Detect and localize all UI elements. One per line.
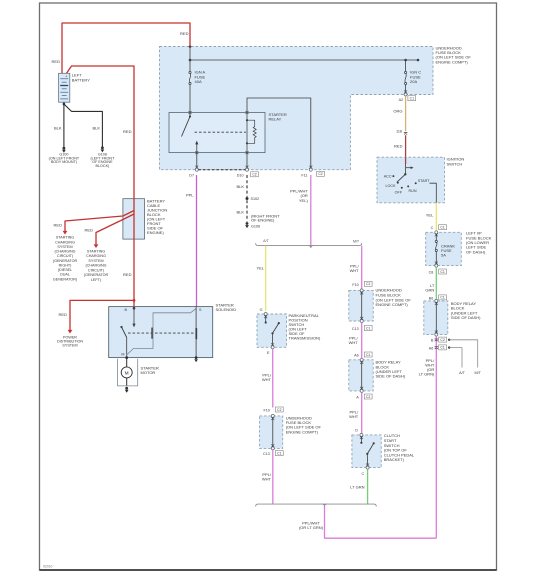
svg-text:C1: C1 [277, 451, 281, 455]
svg-text:(OR LT GRN): (OR LT GRN) [299, 525, 324, 530]
svg-text:C2: C2 [440, 338, 444, 342]
svg-text:BRACKET): BRACKET) [384, 457, 405, 462]
svg-text:M/T: M/T [475, 371, 482, 375]
svg-text:BATTERY: BATTERY [72, 77, 90, 82]
svg-text:WHT: WHT [262, 476, 272, 481]
svg-text:S102: S102 [251, 197, 260, 201]
svg-text:C1: C1 [410, 97, 414, 101]
svg-text:YEL: YEL [426, 213, 434, 218]
svg-text:SWITCH: SWITCH [447, 161, 463, 166]
svg-text:RED: RED [180, 31, 189, 36]
svg-text:M: M [125, 370, 129, 375]
svg-text:M: M [121, 352, 124, 356]
svg-text:BLK: BLK [92, 126, 100, 131]
svg-text:G106: G106 [251, 224, 260, 228]
svg-text:OFF: OFF [395, 190, 403, 194]
svg-text:RED: RED [52, 59, 61, 64]
svg-text:A/T: A/T [459, 371, 465, 375]
svg-text:LOCK: LOCK [385, 184, 396, 188]
svg-text:RED: RED [85, 228, 94, 233]
svg-text:C1: C1 [366, 326, 370, 330]
svg-text:BODY MOUNT): BODY MOUNT) [51, 160, 77, 164]
svg-text:F10: F10 [352, 283, 358, 287]
svg-text:ENGINE COMPT): ENGINE COMPT) [286, 429, 319, 434]
svg-text:WHT: WHT [350, 268, 360, 273]
svg-text:CIRCUIT): CIRCUIT) [57, 254, 73, 258]
svg-text:YEL): YEL) [299, 198, 309, 203]
svg-text:A6: A6 [354, 354, 359, 358]
svg-text:C1: C1 [440, 346, 444, 350]
svg-text:BLK: BLK [236, 184, 244, 189]
svg-text:C: C [431, 226, 434, 230]
svg-text:WHT: WHT [262, 377, 272, 382]
svg-text:92010: 92010 [43, 565, 53, 569]
svg-text:LEFT): LEFT) [91, 278, 101, 282]
svg-text:ACC: ACC [384, 174, 392, 178]
svg-text:OF DASH): OF DASH) [466, 249, 486, 254]
svg-text:RED: RED [54, 223, 63, 228]
svg-text:WHT: WHT [349, 340, 359, 345]
svg-text:C1: C1 [366, 353, 370, 357]
svg-text:SIDE OF DASH): SIDE OF DASH) [376, 374, 406, 379]
svg-text:MOTOR: MOTOR [141, 370, 156, 375]
svg-text:ENGINE): ENGINE) [147, 230, 164, 235]
svg-text:C2: C2 [318, 172, 322, 176]
svg-text:C8: C8 [429, 271, 434, 275]
svg-text:(CHARGING: (CHARGING [54, 250, 75, 254]
svg-text:118: 118 [396, 129, 402, 133]
svg-text:(DIESEL: (DIESEL [58, 268, 72, 272]
svg-text:C1: C1 [440, 296, 444, 300]
svg-text:A6: A6 [429, 347, 434, 351]
svg-text:TRANSMISSION): TRANSMISSION) [289, 336, 321, 341]
svg-text:RELAY: RELAY [269, 116, 282, 121]
svg-text:SYSTEM: SYSTEM [57, 245, 72, 249]
svg-text:F11: F11 [301, 173, 307, 177]
svg-text:C2: C2 [366, 395, 370, 399]
svg-text:ENGINE COMPT): ENGINE COMPT) [376, 302, 409, 307]
svg-text:20A: 20A [410, 79, 417, 84]
svg-text:D7: D7 [189, 174, 194, 178]
svg-text:STARTING: STARTING [56, 236, 74, 240]
svg-text:BLK: BLK [54, 126, 62, 131]
svg-text:RED: RED [59, 312, 68, 317]
svg-text:RUN: RUN [409, 189, 417, 193]
svg-text:CIRCUIT): CIRCUIT) [88, 268, 104, 272]
svg-text:C1: C1 [440, 270, 444, 274]
svg-text:D: D [355, 428, 358, 432]
svg-text:RED: RED [123, 129, 132, 134]
svg-text:M/T: M/T [353, 239, 360, 243]
svg-text:A/T: A/T [263, 239, 269, 243]
svg-text:C2: C2 [277, 408, 281, 412]
svg-text:ORG: ORG [393, 109, 402, 114]
svg-text:(CHARGING: (CHARGING [85, 264, 106, 268]
svg-text:BLOCK): BLOCK) [96, 164, 110, 168]
svg-text:C2: C2 [252, 173, 256, 177]
svg-text:PPL: PPL [186, 193, 194, 198]
svg-text:5A: 5A [441, 252, 446, 257]
svg-text:LT GRN): LT GRN) [419, 372, 435, 377]
svg-text:(GENERATOR: (GENERATOR [53, 259, 78, 263]
svg-text:SYSTEM: SYSTEM [62, 344, 77, 348]
svg-text:SOLENOID: SOLENOID [216, 307, 237, 312]
svg-text:C2: C2 [366, 282, 370, 286]
svg-text:LT GRN: LT GRN [350, 484, 364, 489]
svg-text:START: START [418, 179, 430, 183]
svg-text:C13: C13 [352, 327, 359, 331]
svg-text:RIGHT): RIGHT) [59, 263, 72, 267]
svg-text:G: G [260, 308, 263, 312]
svg-text:GRN: GRN [425, 288, 434, 293]
svg-text:A2: A2 [399, 98, 404, 102]
svg-text:C1: C1 [440, 226, 444, 230]
svg-text:SIDE OF DASH): SIDE OF DASH) [451, 315, 481, 320]
svg-text:+: + [65, 75, 67, 79]
svg-text:F10: F10 [263, 409, 269, 413]
svg-text:40A: 40A [195, 79, 202, 84]
svg-text:D10: D10 [237, 174, 244, 178]
svg-text:RED: RED [394, 144, 403, 149]
svg-text:ENGINE COMPT): ENGINE COMPT) [436, 59, 469, 64]
svg-text:CHARGING: CHARGING [86, 254, 106, 258]
svg-text:C: C [362, 472, 365, 476]
svg-text:RED: RED [123, 272, 132, 277]
svg-text:CHARGING: CHARGING [55, 240, 75, 244]
svg-text:C13: C13 [263, 452, 270, 456]
svg-text:WHT: WHT [349, 414, 359, 419]
svg-text:DUAL: DUAL [60, 273, 70, 277]
svg-text:YEL: YEL [256, 266, 264, 271]
svg-text:GENERATOR): GENERATOR) [53, 277, 77, 281]
svg-text:SYSTEM: SYSTEM [88, 259, 103, 263]
svg-text:(GENERATOR: (GENERATOR [84, 273, 109, 277]
svg-text:B6: B6 [429, 297, 434, 301]
svg-text:OF ENGINE): OF ENGINE) [251, 217, 275, 222]
svg-text:BLK: BLK [236, 210, 244, 215]
svg-text:STARTING: STARTING [87, 249, 105, 253]
